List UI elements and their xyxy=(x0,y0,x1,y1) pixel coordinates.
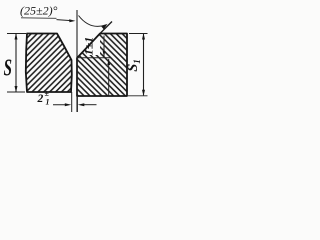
svg-text:S: S xyxy=(4,55,12,81)
S dimension extension bottom xyxy=(7,91,25,93)
bevel extension line xyxy=(100,22,112,34)
lower dim line with up arrow xyxy=(108,59,110,96)
right plate hatch fill xyxy=(77,34,127,97)
arc arrowhead xyxy=(101,24,109,30)
svg-text:2: 2 xyxy=(37,93,44,105)
leader underline xyxy=(21,17,57,20)
S arrow down xyxy=(15,86,18,92)
svg-text:(25±2)°: (25±2)° xyxy=(20,3,58,17)
S dimension extension top xyxy=(7,33,26,35)
1±1 horizontal extension line xyxy=(77,57,111,59)
S1 dimension line xyxy=(143,34,145,95)
left plate outline xyxy=(26,34,72,93)
gap arrow right-pointing xyxy=(53,104,67,106)
svg-text:1: 1 xyxy=(46,98,50,107)
S arrow up xyxy=(15,33,18,39)
leader arrow xyxy=(57,20,72,21)
left plate hatch fill xyxy=(26,34,72,93)
S1 arrow up xyxy=(142,33,145,39)
svg-text:1±1: 1±1 xyxy=(82,37,96,56)
gap extension line right xyxy=(76,96,78,112)
right plate outline xyxy=(77,34,127,97)
S1 arrow down xyxy=(142,90,145,96)
angle arc xyxy=(79,16,107,27)
white halo around 1±1 dim xyxy=(87,37,101,56)
S dimension line xyxy=(15,34,17,92)
S1 dimension extension top xyxy=(129,33,148,35)
vertical reference extension line xyxy=(76,10,78,112)
gap extension line left xyxy=(71,92,73,112)
gap arrow left-pointing xyxy=(83,104,97,106)
1±1 upper dim line with down arrow xyxy=(103,36,105,57)
S1 dimension extension bottom xyxy=(128,95,148,97)
